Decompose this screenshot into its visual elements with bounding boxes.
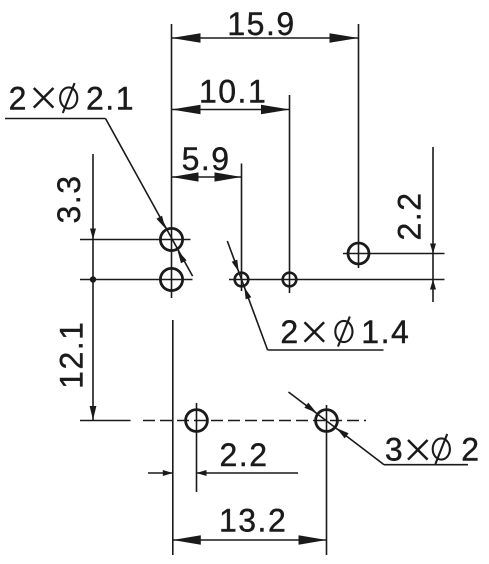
label 2x dia 2.1 xyxy=(9,81,135,117)
centerline hole A vertical xyxy=(241,164,243,292)
leader 3x2 underline xyxy=(384,464,468,466)
extension line left column vertical x=171.5 xyxy=(171,24,173,298)
dimension 2.2 bottom line right tail xyxy=(197,472,299,474)
text 3.3 rotated xyxy=(51,175,87,224)
dimension 13.2 line xyxy=(173,539,327,541)
arrow 13.2 left xyxy=(173,535,201,545)
arrow 5.9 right xyxy=(215,172,242,181)
dimension 10.1 line xyxy=(172,109,291,111)
arrow 2.2 bottom right-pointing xyxy=(163,470,173,476)
centerline middle row horizontal xyxy=(229,279,445,281)
hole A small 1.4 xyxy=(235,273,249,287)
label 3x dia 2 xyxy=(385,432,481,468)
svg-text:10.1: 10.1 xyxy=(199,73,267,109)
hole C2 lower-left 2.1 xyxy=(160,268,182,290)
svg-text:2.1: 2.1 xyxy=(86,81,135,117)
svg-text:13.2: 13.2 xyxy=(219,503,287,539)
centerline hole C horizontal xyxy=(343,253,445,255)
svg-text:3.3: 3.3 xyxy=(51,175,87,224)
svg-text:12.1: 12.1 xyxy=(54,321,90,389)
text 5.9 xyxy=(182,141,231,177)
centerline hole B vertical xyxy=(289,95,291,293)
svg-text:2: 2 xyxy=(461,432,480,468)
text 10.1 xyxy=(199,73,267,109)
dimension 3.3/12.1 line xyxy=(92,154,94,421)
arrow 3.3 down xyxy=(90,229,96,240)
dimension 15.9 line xyxy=(172,37,359,39)
svg-text:2.2: 2.2 xyxy=(220,437,269,473)
svg-text:2.2: 2.2 xyxy=(392,192,428,241)
arrow leader 2.1 lower xyxy=(178,250,187,263)
dimension 2.2 bottom line left tail xyxy=(148,472,173,474)
extension line bottom row solid xyxy=(80,420,131,422)
arrow 15.9 left xyxy=(172,33,201,43)
dot chain 3.3/12.1 xyxy=(90,276,96,282)
centerline bottom row dashed xyxy=(143,420,366,422)
centerline hole C vertical xyxy=(358,24,360,268)
arrow 15.9 right xyxy=(330,33,359,43)
arrow leader 2.0 lower xyxy=(336,428,348,438)
arrow 2.2 bottom left-pointing xyxy=(197,470,207,476)
label 2x dia 1.4 xyxy=(280,314,410,350)
arrow 2.2 right down xyxy=(430,244,436,254)
arrow 5.9 left xyxy=(172,172,199,181)
svg-text:2: 2 xyxy=(9,81,28,117)
leader 2x2.1 underline xyxy=(5,118,106,120)
hole E bottom-right 2.0 xyxy=(316,410,338,432)
text 12.1 rotated xyxy=(54,321,90,389)
arrow leader 1.4 lower xyxy=(244,287,251,299)
centerline hole C2 horizontal xyxy=(80,279,193,281)
svg-text:15.9: 15.9 xyxy=(227,6,295,42)
hole C top-right 2.0 xyxy=(348,243,369,264)
arrow 13.2 right xyxy=(299,535,327,545)
arrow 2.2 right up xyxy=(430,280,436,290)
text 13.2 xyxy=(219,503,287,539)
hole B small 1.4 xyxy=(283,273,297,287)
leader 3x2 diagonal xyxy=(289,392,385,465)
dimension 5.9 line xyxy=(172,176,242,178)
arrow leader 1.4 upper xyxy=(232,260,239,272)
hole D bottom-left 2.0 xyxy=(186,410,208,432)
leader 2x2.1 diagonal xyxy=(106,119,193,277)
text 2.2 bottom xyxy=(220,437,269,473)
centerline hole C1 horizontal xyxy=(80,239,191,241)
svg-text:1.4: 1.4 xyxy=(361,314,410,350)
arrow 12.1 down xyxy=(90,406,97,420)
svg-text:5.9: 5.9 xyxy=(182,141,231,177)
arrow 10.1 right xyxy=(261,105,290,115)
dimension 2.2 right line xyxy=(432,147,434,302)
text 15.9 xyxy=(227,6,295,42)
svg-text:2: 2 xyxy=(280,314,299,350)
extension line lower-left vertical x=172.8 xyxy=(172,320,174,555)
hole C1 top-left 2.1 xyxy=(160,228,182,250)
svg-text:3: 3 xyxy=(385,432,404,468)
text 2.2 right rotated xyxy=(392,192,428,241)
arrow leader 2.0 upper xyxy=(304,403,316,413)
leader 2x1.4 diagonal xyxy=(227,241,267,350)
arrow 10.1 left xyxy=(172,105,201,115)
centerline hole E vertical xyxy=(326,405,328,555)
arrow leader 2.1 upper xyxy=(156,216,165,229)
leader 2x1.4 underline xyxy=(268,349,384,351)
centerline hole D vertical xyxy=(196,403,198,492)
